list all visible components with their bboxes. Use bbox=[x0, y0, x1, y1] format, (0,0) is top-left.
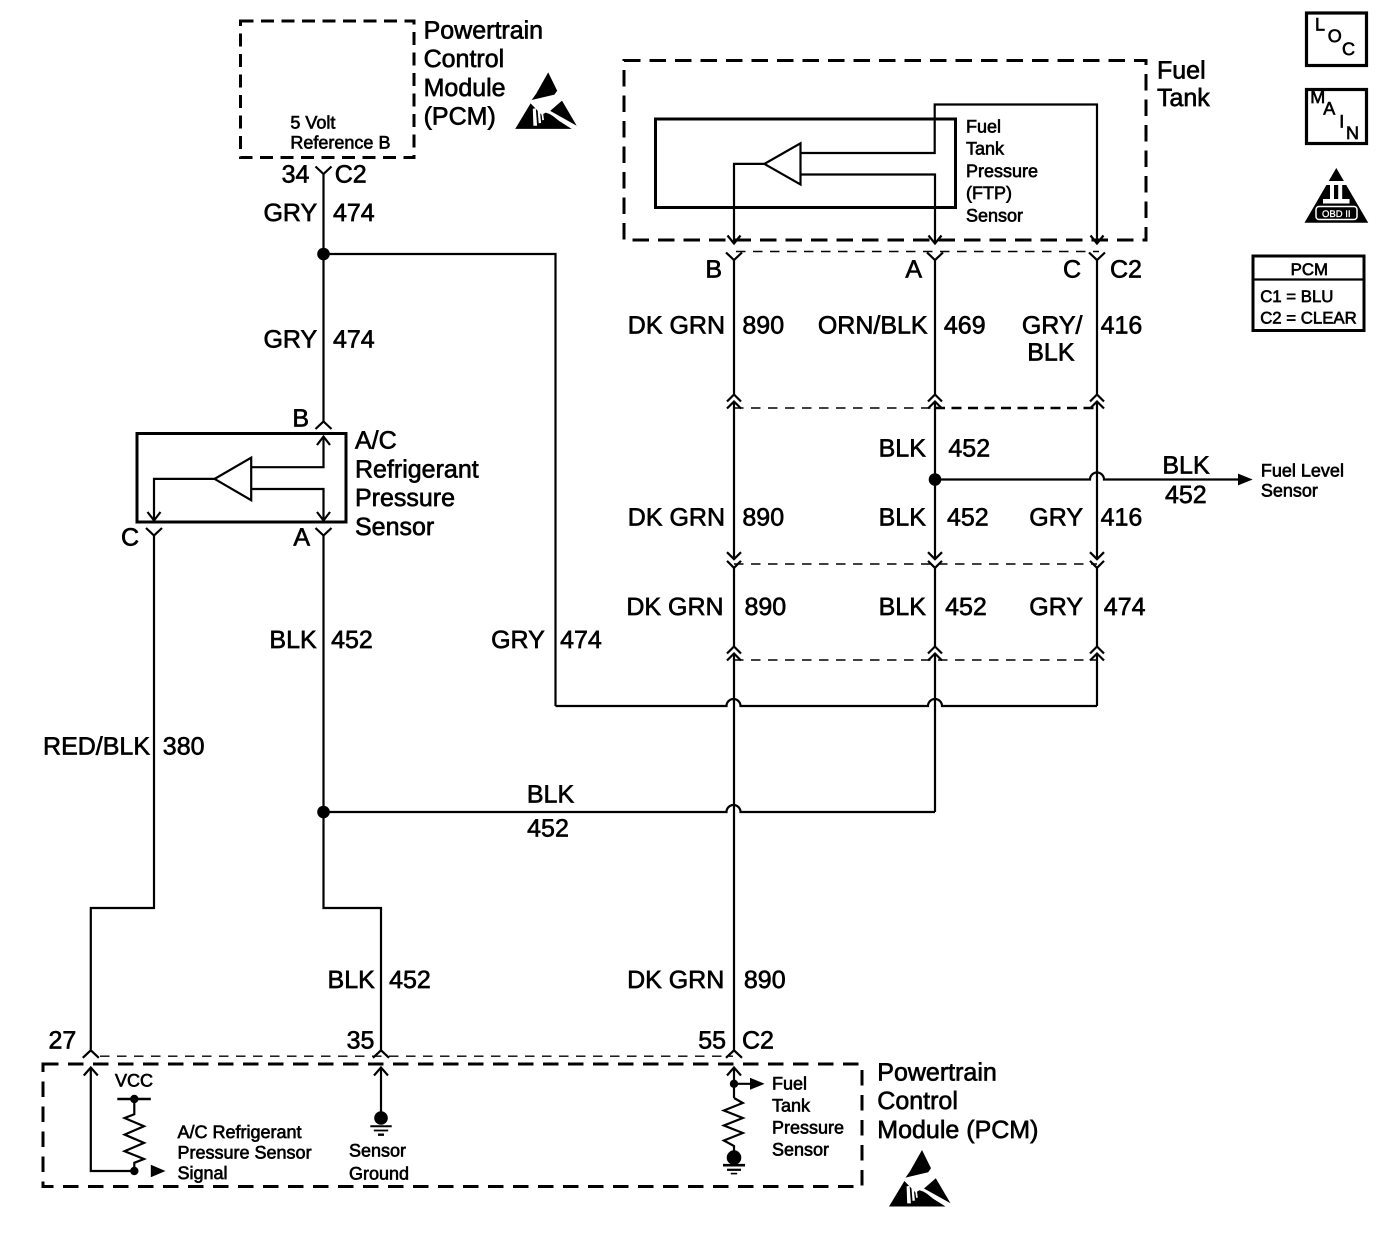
wire DK GRN 890 segment (fuel tank pin B to row-1 connector) bbox=[733, 260, 735, 395]
svg-text:Pressure: Pressure bbox=[355, 484, 455, 512]
svg-text:BLK: BLK bbox=[879, 434, 927, 462]
wire DK GRN 890 segment (row-2 to row-3 connector) bbox=[733, 568, 735, 647]
svg-text:Sensor: Sensor bbox=[772, 1140, 829, 1160]
wire BLK 452 from pin A to junction J2 bbox=[322, 536, 324, 813]
resistor R (A/C signal pull-up) bbox=[125, 1099, 144, 1171]
resistor R (FTP pull) bbox=[724, 1098, 743, 1151]
svg-text:(PCM): (PCM) bbox=[424, 103, 496, 131]
svg-text:Pressure Sensor: Pressure Sensor bbox=[178, 1142, 312, 1162]
arrow FTP sensor (filled) bbox=[750, 1078, 765, 1090]
svg-text:C2: C2 bbox=[335, 161, 367, 189]
inline connector chevrons wire C (row 1) bbox=[1090, 395, 1104, 409]
svg-text:474: 474 bbox=[333, 326, 375, 354]
ground FTP (dot + bars) bbox=[727, 1150, 742, 1165]
module box PCM top (dashed) bbox=[241, 21, 415, 158]
junction J1 bbox=[317, 248, 330, 261]
svg-text:A/C: A/C bbox=[355, 427, 397, 455]
svg-text:452: 452 bbox=[389, 966, 431, 994]
svg-text:C: C bbox=[121, 524, 139, 552]
junction J2 bbox=[317, 806, 330, 819]
svg-text:Control: Control bbox=[877, 1087, 958, 1115]
internal wire FTP tip to pin B bbox=[734, 164, 764, 244]
svg-text:474: 474 bbox=[333, 199, 375, 227]
amplifier triangle FTP sensor bbox=[764, 143, 800, 184]
svg-text:469: 469 bbox=[944, 311, 986, 339]
dot FTP branch bbox=[730, 1080, 738, 1088]
inline connector chevrons wire C (row 2) bbox=[1090, 552, 1104, 568]
inline connector chevrons wire C (row 3) bbox=[1090, 647, 1104, 661]
ESD symbol bottom bbox=[889, 1150, 951, 1207]
internal wire FTP lower output to pin A bbox=[801, 175, 936, 244]
svg-text:Sensor: Sensor bbox=[349, 1141, 406, 1161]
dot at resistor bottom bbox=[130, 1167, 138, 1175]
branch wire to arrow bbox=[734, 1083, 751, 1085]
svg-text:C1 = BLU: C1 = BLU bbox=[1260, 287, 1333, 306]
connector pin A fuel tank (Y cup) bbox=[927, 253, 943, 261]
svg-text:O: O bbox=[1328, 26, 1342, 46]
svg-text:BLK: BLK bbox=[1027, 338, 1075, 366]
svg-text:Powertrain: Powertrain bbox=[424, 16, 543, 44]
svg-text:OBD II: OBD II bbox=[1322, 209, 1351, 220]
svg-text:A: A bbox=[905, 256, 922, 284]
svg-text:890: 890 bbox=[742, 311, 784, 339]
svg-text:BLK: BLK bbox=[328, 966, 376, 994]
wire GRY 474 segment (row-3 connector to horizontal GRY 474) bbox=[1096, 654, 1098, 707]
wire RED/BLK 380 from pin C to pin 27 bbox=[91, 536, 154, 1051]
svg-text:Sensor: Sensor bbox=[355, 513, 434, 541]
inline connector chevrons wire B (row 2) bbox=[727, 552, 741, 568]
svg-text:B: B bbox=[292, 405, 309, 433]
module box Fuel Tank (dashed) bbox=[624, 61, 1146, 241]
svg-text:C: C bbox=[1063, 256, 1081, 284]
inline connector chevrons wire A (row 2) bbox=[928, 552, 942, 568]
svg-text:Reference B: Reference B bbox=[290, 133, 390, 153]
inline connector chevrons wire A (row 1) bbox=[928, 395, 942, 409]
inline connector chevrons wire B (row 3) bbox=[727, 647, 741, 661]
svg-text:Fuel: Fuel bbox=[1157, 56, 1206, 84]
internal wire pin 27 to resistor/arrow bbox=[91, 1068, 135, 1172]
wire GRY 474 down to A/C sensor pin B bbox=[322, 254, 324, 422]
svg-text:BLK: BLK bbox=[527, 781, 575, 809]
internal arrow up at pin B bbox=[317, 437, 330, 446]
svg-text:Ground: Ground bbox=[349, 1164, 409, 1184]
LOC box bbox=[1307, 13, 1367, 66]
svg-text:A: A bbox=[1323, 98, 1335, 118]
wire BLK 452 J2 down jog to pin 35 bbox=[324, 812, 382, 1050]
svg-text:Refrigerant: Refrigerant bbox=[355, 455, 479, 483]
wire GRY 416 segment (row-1 to row-2 connector) bbox=[1096, 402, 1098, 560]
OBD II symbol bbox=[1305, 168, 1369, 223]
svg-text:Fuel: Fuel bbox=[966, 116, 1001, 136]
svg-text:Module: Module bbox=[424, 74, 506, 102]
svg-text:A: A bbox=[293, 524, 310, 552]
arrow down at fuel tank edge pin A bbox=[929, 236, 942, 244]
svg-text:DK GRN: DK GRN bbox=[628, 311, 725, 339]
wire pin 35 to ground bbox=[380, 1068, 382, 1119]
svg-text:BLK: BLK bbox=[1162, 452, 1210, 480]
wire DK GRN 890 segment (row-3 connector to PCM pin 55) bbox=[733, 654, 735, 1051]
wire GRY 474 from pin 34 to junction bbox=[322, 174, 324, 254]
svg-text:DK GRN: DK GRN bbox=[626, 593, 723, 621]
wire DK GRN 890 segment (row-1 to row-2 connector) bbox=[733, 402, 735, 560]
wire BLK 452 horizontal J2 to A column (hop over B column) bbox=[324, 805, 936, 812]
svg-text:Sensor: Sensor bbox=[966, 205, 1023, 225]
internal arrow down at pin A bbox=[317, 512, 330, 521]
svg-text:GRY: GRY bbox=[1029, 504, 1083, 532]
ground sensor ground (dot + bars) bbox=[374, 1111, 388, 1125]
connector pin 55 (cup opens down) bbox=[726, 1050, 742, 1058]
svg-text:C2: C2 bbox=[742, 1027, 774, 1055]
internal wire amp to pin A bbox=[251, 489, 323, 521]
svg-text:I: I bbox=[1339, 111, 1344, 131]
internal wire pin B to amp bbox=[251, 437, 323, 468]
svg-text:Pressure: Pressure bbox=[772, 1118, 844, 1138]
svg-text:Fuel: Fuel bbox=[772, 1074, 807, 1094]
VCC rail bar bbox=[117, 1098, 151, 1101]
connector line C2 under fuel tank (thin dashed) bbox=[736, 251, 1099, 253]
svg-text:Signal: Signal bbox=[178, 1163, 228, 1183]
svg-text:Sensor: Sensor bbox=[1261, 481, 1318, 501]
svg-text:ORN/BLK: ORN/BLK bbox=[818, 311, 928, 339]
svg-text:Pressure: Pressure bbox=[966, 161, 1038, 181]
svg-text:452: 452 bbox=[527, 814, 569, 842]
svg-text:452: 452 bbox=[947, 504, 989, 532]
svg-text:RED/BLK: RED/BLK bbox=[43, 732, 150, 760]
inline connector row 3 (chevrons up, dashed line) bbox=[734, 659, 1097, 661]
wire ORN/BLK 469 segment (fuel tank pin A to row-1 connector) bbox=[934, 260, 936, 395]
svg-text:N: N bbox=[1346, 123, 1359, 143]
svg-text:Tank: Tank bbox=[772, 1096, 811, 1116]
svg-text:BLK: BLK bbox=[269, 626, 317, 654]
wire BLK 452 segment (row-1 to row-2 connector, junction J3) bbox=[934, 402, 936, 560]
amplifier triangle A/C sensor bbox=[215, 458, 252, 501]
svg-text:416: 416 bbox=[1101, 504, 1143, 532]
svg-text:452: 452 bbox=[948, 434, 990, 462]
internal arrow up at pin 35 bbox=[374, 1068, 388, 1076]
svg-text:27: 27 bbox=[48, 1027, 76, 1055]
svg-text:452: 452 bbox=[331, 626, 373, 654]
svg-text:C2 = CLEAR: C2 = CLEAR bbox=[1260, 308, 1357, 327]
svg-text:DK GRN: DK GRN bbox=[627, 966, 724, 994]
svg-text:(FTP): (FTP) bbox=[966, 183, 1012, 203]
svg-text:55: 55 bbox=[698, 1027, 726, 1055]
svg-text:GRY: GRY bbox=[491, 626, 545, 654]
svg-text:Powertrain: Powertrain bbox=[877, 1058, 997, 1086]
connector line C2 bottom (thin dashed) bbox=[100, 1055, 733, 1057]
svg-text:474: 474 bbox=[560, 626, 602, 654]
connector pin B (cup opens down) bbox=[316, 422, 332, 430]
svg-text:890: 890 bbox=[745, 593, 787, 621]
svg-text:416: 416 bbox=[1101, 311, 1143, 339]
svg-text:890: 890 bbox=[744, 966, 786, 994]
svg-text:Fuel Level: Fuel Level bbox=[1261, 460, 1344, 480]
internal arrow down at pin C bbox=[148, 512, 161, 521]
arrow down at fuel tank edge pin C bbox=[1091, 236, 1104, 244]
svg-text:5 Volt: 5 Volt bbox=[290, 112, 335, 132]
wire GRY 474 segment (row-2 to row-3 connector) bbox=[1096, 568, 1098, 647]
svg-text:GRY/: GRY/ bbox=[1022, 311, 1083, 339]
internal arrow up at pin 55 bbox=[727, 1068, 741, 1076]
svg-text:Control: Control bbox=[424, 45, 505, 73]
wire GRY 474 branch right bbox=[324, 254, 556, 706]
svg-text:BLK: BLK bbox=[879, 504, 927, 532]
svg-text:DK GRN: DK GRN bbox=[628, 504, 725, 532]
dot VCC bbox=[130, 1095, 138, 1103]
inline connector chevrons wire B (row 1) bbox=[727, 395, 741, 409]
wire GRY/BLK 416 segment (fuel tank pin C to row-1 connector) bbox=[1096, 260, 1098, 395]
arrow A/C signal (filled) bbox=[151, 1165, 166, 1177]
svg-text:Tank: Tank bbox=[966, 139, 1005, 159]
PCM legend box bbox=[1253, 256, 1364, 331]
arrow to fuel level sensor (filled) bbox=[1238, 474, 1253, 486]
connector pin C (cup opens up) bbox=[146, 528, 162, 536]
wire GRY 474 horizontal to C column (hops over B and A columns) bbox=[556, 699, 1098, 706]
svg-text:452: 452 bbox=[1165, 481, 1207, 509]
connector pin 27 (cup opens down) bbox=[83, 1050, 99, 1058]
svg-text:GRY: GRY bbox=[263, 199, 317, 227]
svg-text:PCM: PCM bbox=[1291, 260, 1328, 279]
connector pin A (cup opens up) bbox=[316, 528, 332, 536]
svg-text:35: 35 bbox=[347, 1027, 375, 1055]
wire BLK 452 segment (row-2 to row-3 connector) bbox=[934, 568, 936, 647]
svg-text:890: 890 bbox=[742, 504, 784, 532]
junction J3 bbox=[929, 473, 942, 486]
svg-text:L: L bbox=[1315, 14, 1325, 34]
internal wire FTP upper output to pin C bbox=[801, 105, 1098, 244]
sensor box FTP sensor bbox=[656, 119, 956, 208]
svg-text:GRY: GRY bbox=[1029, 593, 1083, 621]
ESD symbol top bbox=[515, 72, 577, 128]
inline connector chevrons wire A (row 3) bbox=[928, 647, 942, 661]
svg-text:VCC: VCC bbox=[115, 1071, 153, 1091]
svg-text:A/C Refrigerant: A/C Refrigerant bbox=[178, 1122, 302, 1142]
sensor box A/C refrigerant pressure sensor bbox=[137, 434, 346, 523]
svg-text:C: C bbox=[1342, 39, 1355, 59]
svg-text:474: 474 bbox=[1104, 593, 1146, 621]
MAIN box bbox=[1307, 90, 1367, 144]
connector pin 35 (cup opens down) bbox=[373, 1050, 389, 1058]
wire pin 55 to resistor bbox=[733, 1068, 735, 1099]
internal wire amp tip to pin C bbox=[154, 479, 215, 521]
svg-text:380: 380 bbox=[163, 732, 205, 760]
svg-text:Tank: Tank bbox=[1157, 84, 1210, 112]
svg-text:C2: C2 bbox=[1110, 256, 1142, 284]
wire BLK 452 to fuel level sensor (hop over C column) bbox=[935, 473, 1239, 480]
svg-text:B: B bbox=[705, 256, 722, 284]
inline connector row 1 (chevrons up, dashed line) bbox=[734, 407, 935, 409]
svg-text:GRY: GRY bbox=[263, 326, 317, 354]
wire BLK 452 segment (row-3 connector down to horizontal BLK 452) bbox=[934, 654, 936, 813]
connector pin C fuel tank (Y cup) bbox=[1089, 253, 1105, 261]
inline connector row 2 (chevrons down, dashed line) bbox=[734, 563, 1097, 565]
arrow down at fuel tank edge pin B bbox=[728, 236, 741, 244]
svg-text:34: 34 bbox=[282, 161, 310, 189]
connector pin B fuel tank (Y cup) bbox=[726, 253, 742, 261]
svg-text:BLK: BLK bbox=[879, 593, 927, 621]
connector pin 34 (Y cup) bbox=[316, 167, 332, 175]
svg-text:452: 452 bbox=[945, 593, 987, 621]
svg-text:Module (PCM): Module (PCM) bbox=[877, 1116, 1038, 1144]
internal arrow up at pin 27 bbox=[84, 1068, 98, 1076]
module box PCM bottom (dashed) bbox=[43, 1064, 862, 1187]
